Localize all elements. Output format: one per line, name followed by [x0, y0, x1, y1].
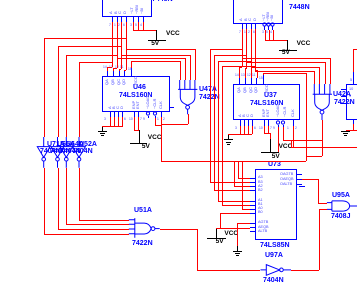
7448 decoder U45 (top-left, cut off at top): [102, 0, 152, 17]
pins U37 top: [239, 78, 240, 84]
wire U37 CLR drop: [283, 127, 284, 140]
wire bus drop to U73 A0: [242, 161, 243, 209]
wire U47A input drop verticals: [180, 61, 181, 80]
U74 bottom pin stub: [353, 120, 354, 124]
7448 decoder U44 (top-right, cut off at top): [233, 0, 283, 24]
wire inverter U71A out to U51A in4: [44, 168, 45, 234]
wire U73 B0 row: [220, 213, 251, 214]
pin 15 RCO stub right edge U37: [235, 127, 237, 130]
wire net QD left branch to U71A: [44, 38, 126, 39]
wire U37 data pins to ground G2: [240, 126, 241, 134]
wire U37 QB column down to U73 B2: [214, 55, 247, 56]
wire U46 CLK pin down to U47A output net: [161, 117, 162, 161]
wire U37 RCO wrap to bus: [263, 73, 264, 76]
wire inverter U52A out to U51A in1: [79, 168, 80, 220]
wire net QC left branch to U65A: [58, 46, 122, 47]
counter U46 74LS160N: [102, 76, 170, 112]
pins U46 top: [107, 70, 108, 76]
wire U46 ENP ENT to V3: [134, 117, 135, 130]
counter U37 74LS160N: [233, 84, 300, 120]
wire bus drop to U73 A2: [234, 161, 235, 186]
wire U51A out to U97A in: [160, 229, 197, 230]
ground G2 (below U37): [228, 134, 229, 139]
U73 right pin stubs: [296, 174, 302, 175]
wire net QC right branch to U47A in3: [121, 55, 190, 56]
wire net QA37 branch to U42A in1: [242, 58, 330, 59]
U74 left pin stubs: [341, 89, 346, 90]
wire U46 data pins to ground G1: [110, 117, 111, 126]
wire net QD37 branch to U42A in4: [255, 71, 314, 72]
wire middle bus: [161, 161, 306, 162]
pins of U45 bottom edge: [112, 16, 113, 22]
wire net QD right branch to U47A in4: [126, 49, 195, 50]
wire net QB left branch to U64A: [66, 55, 117, 56]
pins U46 bottom: [110, 111, 111, 117]
wire U45 pin col3 down to U46 QC: [121, 22, 122, 69]
display chip U74 (right edge, cut off): [346, 84, 357, 120]
wire U37 QD column down to U73 B1: [222, 66, 255, 67]
VCC symbol V5 (left of U73): [216, 228, 217, 239]
wire U73 cascade AEQB to V5: [216, 228, 250, 229]
comparator U73 74LS85N: [255, 169, 297, 240]
wire U45 pin col4 down to U46 QD: [126, 22, 127, 70]
ground G3 (below U73): [237, 246, 238, 251]
wire bus drop to U73 A3: [238, 161, 239, 178]
pin 15 RCO stub right edge U46: [169, 107, 174, 108]
overlapping labels of the four inverters: [47, 141, 65, 148]
VCC symbol V4 (below U37): [270, 139, 271, 152]
wire net QA left branch to U52A: [79, 62, 113, 63]
U73 left pin stubs: [250, 178, 255, 179]
wire U74 bottom pin to ground G4: [353, 124, 354, 130]
wire U42A output wrap: [322, 120, 323, 156]
wire inverter U64A out to U51A in2: [66, 168, 67, 225]
wire U44 col4 down to U37 QD: [255, 29, 256, 70]
pins U37 bottom: [240, 120, 241, 126]
pins of U44 bottom edge: [242, 23, 243, 29]
ground G4 (right edge below U74): [346, 130, 347, 132]
wire U46 LOAD pin down: [155, 118, 156, 126]
VCC symbol V1 (top-left 5V): [156, 30, 157, 40]
wire U45 pin col1 down to U46 QA: [112, 22, 113, 67]
wire U73 cascade AGTB to ground G3: [237, 223, 238, 246]
wire net QB37 branch to U42A in2: [246, 62, 325, 63]
VCC symbol V2 (top-right 5V): [287, 40, 288, 49]
wire net QC37 branch to U42A in3: [251, 67, 319, 68]
wire net QB right branch to U47A in2: [117, 58, 185, 59]
ground G1 (below U46): [102, 126, 103, 131]
wire U45 VCC pins to V1: [133, 22, 134, 30]
wire U37 QC column down to U73 A1: [218, 61, 251, 62]
wire U44 col1 down to U37 QA: [242, 29, 243, 67]
wire U45 pin col2 down to U46 QB: [117, 22, 118, 68]
VCC symbol V3 (below U46): [139, 130, 140, 143]
wire U37 ENP ENT to V4: [264, 126, 265, 133]
wire U73 OAEQB to U95A in1: [302, 179, 318, 180]
wire U46 RCO to U47A input 1: [131, 61, 132, 68]
wire U44 col2 down to U37 QB: [246, 29, 247, 68]
wire U37 LOAD to V4 bar: [278, 127, 279, 152]
wire to U74 top pin: [353, 49, 357, 50]
wire inverter U65A out to U51A in3: [58, 168, 59, 229]
wire U97A out to U95A in2: [291, 270, 319, 271]
wire U37 QA column down to U73 A3: [210, 49, 243, 50]
wire U47A output down: [188, 114, 189, 124]
wire U44 VCC pins to V2: [265, 30, 266, 40]
wire U44 col3 down to U37 QC: [251, 29, 252, 78]
wire U37 bottom CLK pin drop: [293, 126, 294, 147]
